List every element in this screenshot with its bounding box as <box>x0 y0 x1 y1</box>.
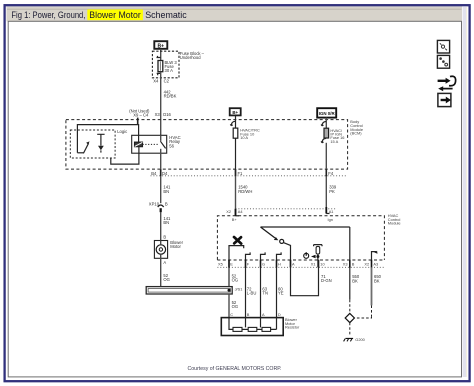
svg-text:E: E <box>230 262 233 267</box>
label Blower Motor <box>170 240 183 249</box>
HVAC module dashed boundary <box>217 216 384 260</box>
splice diamond <box>345 313 354 322</box>
svg-text:H: H <box>278 262 281 267</box>
label Body Control Module (BCM) <box>350 119 363 135</box>
feedback arrow to driver <box>311 255 316 259</box>
svg-text:D-GN: D-GN <box>321 278 332 283</box>
svg-text:XP10: XP10 <box>149 201 160 206</box>
blower motor resistor box <box>221 318 283 336</box>
wire fuse to BCM pin F1 <box>235 138 237 169</box>
node B+ (BCM feed box) <box>230 108 241 115</box>
svg-text:Schematic: Schematic <box>145 10 187 20</box>
svg-text:B: B <box>352 262 355 267</box>
fuse terminal hook top <box>157 56 161 58</box>
svg-text:B: B <box>247 312 250 317</box>
toolbar icon jump arrow <box>438 76 456 91</box>
pin A1 <box>326 207 333 214</box>
pin hook IGN fuse bottom <box>321 138 326 142</box>
svg-text:L-BU: L-BU <box>247 291 257 296</box>
svg-text:Resistor: Resistor <box>285 325 300 330</box>
svg-text:X4: X4 <box>153 79 159 84</box>
svg-text:B+: B+ <box>232 110 238 115</box>
wire logic to relay coil top <box>77 125 138 153</box>
connector pins X4 C2 <box>153 79 169 84</box>
svg-text:X2: X2 <box>364 262 369 267</box>
svg-text:OG: OG <box>163 277 170 282</box>
wire splice to ground <box>349 323 351 335</box>
svg-text:X3: X3 <box>155 112 161 117</box>
svg-text:B4: B4 <box>151 171 157 176</box>
unused pin X9 C4 <box>129 109 150 125</box>
toolbar icon next arrow <box>438 93 451 106</box>
wire 141 BN upper <box>161 176 171 203</box>
svg-text:OG: OG <box>232 304 239 309</box>
relay HVAC box <box>132 135 167 153</box>
title highlight Blower Motor <box>87 9 143 20</box>
svg-text:IGN 0/R: IGN 0/R <box>319 111 336 116</box>
svg-text:X9 – C4: X9 – C4 <box>133 113 149 118</box>
svg-text:Courtesy of GENERAL MOTORS COR: Courtesy of GENERAL MOTORS CORP. <box>188 366 282 372</box>
title text <box>11 10 187 20</box>
resistor network inside <box>229 318 277 332</box>
wire logic return to relay coil bottom <box>111 153 139 164</box>
fuse BLW 3 30A <box>158 61 163 72</box>
resistor terminals C B A D <box>230 312 281 317</box>
svg-text:X1: X1 <box>311 262 316 267</box>
svg-text:YE: YE <box>278 291 284 296</box>
svg-text:G: G <box>262 262 265 267</box>
HVAC module top connector dotted face <box>236 208 337 210</box>
svg-text:30 A: 30 A <box>165 68 174 73</box>
svg-text:B+: B+ <box>158 43 165 49</box>
svg-text:RD/BK: RD/BK <box>164 94 177 99</box>
label HVAC Control Module <box>388 213 401 226</box>
svg-text:15 A: 15 A <box>330 139 338 144</box>
pin X1 10 <box>311 262 326 267</box>
node B+ inside module <box>232 217 238 222</box>
splice bus bar <box>146 287 232 294</box>
svg-text:J/S1: J/S1 <box>235 287 243 292</box>
svg-text:BN: BN <box>163 220 169 225</box>
relay contact blade <box>160 135 165 169</box>
pin hook IGN fuse top <box>321 122 326 126</box>
fuse value label BLW 3 Fuse 30 A <box>165 60 178 73</box>
blower motor M1 <box>154 241 167 259</box>
label Fuse Block - Underhood <box>180 51 205 60</box>
svg-text:BK: BK <box>374 278 380 283</box>
speed contact stub G <box>261 252 266 260</box>
svg-text:B: B <box>163 235 166 240</box>
pin bracket F4 <box>325 169 327 176</box>
svg-text:Module: Module <box>388 221 401 226</box>
svg-text:Motor: Motor <box>170 244 181 249</box>
wire B+ into BCM <box>235 115 237 128</box>
svg-text:X3: X3 <box>343 262 348 267</box>
wire fuse to BCM pin F4 <box>325 143 327 169</box>
svg-text:56: 56 <box>169 143 174 148</box>
ground G200 <box>344 337 366 342</box>
svg-text:D16: D16 <box>163 112 171 117</box>
fuse terminal hook bottom <box>157 73 161 75</box>
node Ign inside module <box>328 217 333 222</box>
svg-text:C: C <box>230 312 233 317</box>
svg-text:B: B <box>165 201 168 206</box>
BCM connector face dotted line <box>151 175 348 177</box>
power symbol (blower driver) <box>304 252 309 258</box>
logic ground symbol <box>97 134 104 152</box>
svg-text:G200: G200 <box>355 337 365 342</box>
wire 52 OG motor to splice bar <box>161 258 170 286</box>
wire 60 YE <box>277 267 284 317</box>
pin X2 A4 <box>226 209 243 216</box>
switch contact to pin A <box>283 243 290 268</box>
svg-text:OG: OG <box>232 278 239 283</box>
label Blower Motor Resistor <box>285 317 300 330</box>
wire 650 BK <box>354 267 381 318</box>
svg-text:PK: PK <box>329 189 335 194</box>
module bottom pin stubs <box>229 260 372 268</box>
node IGN 0/R box <box>317 108 336 117</box>
svg-text:Blower Motor: Blower Motor <box>89 10 141 20</box>
pin X2 A3 <box>364 262 378 267</box>
svg-text:(BCM): (BCM) <box>350 131 362 136</box>
svg-text:A: A <box>262 312 265 317</box>
ground hook above pin X2 A3 <box>372 251 378 260</box>
footer courtesy text <box>188 366 282 372</box>
transistor Q (logic driver) <box>77 141 89 153</box>
pin B4 D4 <box>151 169 168 176</box>
svg-text:X5: X5 <box>218 262 223 267</box>
wire IGN into BCM <box>325 118 327 129</box>
logic dashed box <box>70 129 127 158</box>
svg-text:B+: B+ <box>232 217 238 222</box>
pin hook HVAC fuse top <box>230 121 235 125</box>
svg-text:D4: D4 <box>162 171 168 176</box>
right inner gutter band <box>463 7 467 377</box>
HVAC module bottom connector row <box>217 260 384 267</box>
wire 141 BN lower <box>161 212 171 241</box>
svg-text:TN: TN <box>262 291 268 296</box>
svg-text:BN: BN <box>163 189 169 194</box>
pin X3 D16 <box>155 112 172 117</box>
pin F4 <box>328 171 334 176</box>
wire 1540 RD/WH (BCM F1 to module X2 A4) <box>236 169 253 216</box>
svg-text:A4: A4 <box>238 209 244 214</box>
svg-text:Fig 1: Power, Ground,: Fig 1: Power, Ground, <box>11 10 85 20</box>
wire B+ to fuse block <box>160 49 162 61</box>
svg-text:A: A <box>163 260 166 265</box>
relay coil to contact dotted link <box>143 143 159 145</box>
wire 442 RD/BK <box>161 72 177 136</box>
svg-text:A: A <box>292 262 295 267</box>
wire 63 TN <box>261 267 268 317</box>
svg-text:Ign: Ign <box>328 217 333 222</box>
title bar background <box>7 7 463 22</box>
speed contact stub F <box>246 252 251 260</box>
label HVAC Relay 56 <box>169 135 181 148</box>
inline connector XP10 B <box>149 201 168 212</box>
wire 550 BK <box>350 267 360 313</box>
svg-text:RD/WH: RD/WH <box>238 189 252 194</box>
speed contact stub H <box>277 252 282 260</box>
pin X3 B <box>343 262 355 267</box>
blower switch S1 arm <box>261 227 284 243</box>
svg-text:C2: C2 <box>164 79 170 84</box>
node B+ (battery feed box) <box>154 41 167 49</box>
pin F1 <box>238 171 244 176</box>
wire 339 PK (BCM F4 to module A1) <box>326 169 337 214</box>
BCM dashed box <box>66 120 348 170</box>
svg-text:F4: F4 <box>328 171 334 176</box>
fuse block underhood dashed box <box>152 51 179 78</box>
wire 71 D-GN loop pin A to X1-10 <box>291 266 332 296</box>
blower motor terminal B <box>163 235 166 240</box>
pin bracket F1 <box>235 169 237 176</box>
relay coil <box>135 142 143 153</box>
fan bracket wire to pin E <box>229 246 244 287</box>
fuse HVAC/TRC 10A <box>233 128 260 141</box>
svg-text:Underhood: Underhood <box>180 55 201 60</box>
svg-text:10 A: 10 A <box>240 135 248 140</box>
blower motor terminal A <box>163 260 166 265</box>
svg-text:A3: A3 <box>373 262 378 267</box>
wire 72 L-BU <box>246 267 257 317</box>
svg-text:X2: X2 <box>226 209 231 214</box>
wire 52 OG splice to resistor C <box>229 294 238 318</box>
toolbar icon zoom-1 <box>437 40 449 53</box>
switch arm feed line (Ign bus to X3 B) <box>261 227 350 267</box>
fuse HVAC/IP IGN 15A <box>324 128 344 144</box>
toolbar icon zoom-2 <box>437 55 449 68</box>
svg-text:BK: BK <box>352 278 358 283</box>
svg-text:F1: F1 <box>238 171 244 176</box>
resistor feedback R inside module <box>314 245 322 268</box>
svg-text:Logic: Logic <box>117 129 127 134</box>
svg-text:D: D <box>278 312 281 317</box>
splice label J/S1 <box>235 287 243 292</box>
blower fan icon <box>234 237 241 244</box>
module pin letters X5 E F G H A <box>218 262 295 267</box>
wire 52 OG module E to splice <box>232 273 239 282</box>
